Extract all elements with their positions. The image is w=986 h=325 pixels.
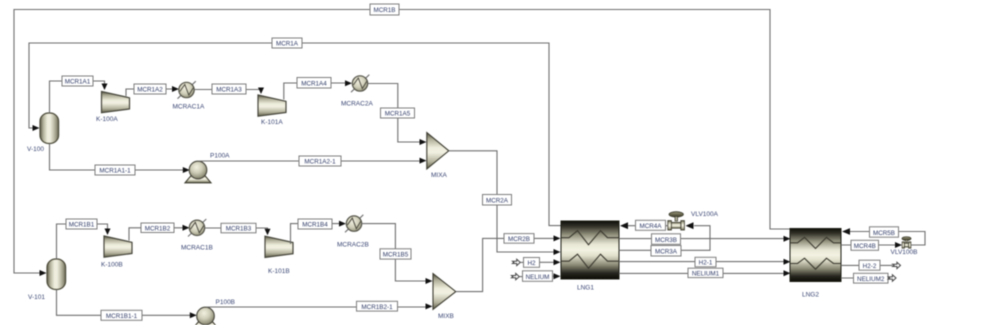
stream label MCR5B <box>870 227 899 237</box>
svg-text:K-101B: K-101B <box>268 268 290 275</box>
pump P100A <box>185 153 230 183</box>
svg-text:MCR1B1: MCR1B1 <box>69 222 95 229</box>
svg-text:H2-1: H2-1 <box>699 260 713 267</box>
svg-text:MCR3A: MCR3A <box>655 249 678 256</box>
wire MCR4A (VLV100A to LNG1) <box>620 222 668 229</box>
svg-text:MCR2A: MCR2A <box>486 198 509 205</box>
svg-text:MCR2B: MCR2B <box>508 236 530 243</box>
svg-text:VLV100A: VLV100A <box>691 211 719 218</box>
svg-text:H2-2: H2-2 <box>863 263 877 270</box>
svg-text:MCR1B4: MCR1B4 <box>302 222 328 229</box>
stream label MCR1A4 <box>297 78 331 89</box>
stream label MCR3B <box>652 234 681 245</box>
svg-text:P100B: P100B <box>216 299 236 306</box>
stream label MCR1A2 <box>134 84 166 94</box>
wire MCR1A1-1 (V-100 bottom to P100A) <box>50 144 190 174</box>
stream label MCR1B5 <box>380 249 411 259</box>
wire H2-1 (LNG1 to LNG2) <box>619 259 791 265</box>
svg-text:MCR1B5: MCR1B5 <box>383 252 409 259</box>
feed arrow NELIUM <box>512 273 523 279</box>
stream label MCR4A <box>636 220 666 230</box>
svg-text:K-100B: K-100B <box>101 262 123 269</box>
svg-text:MCR1B3: MCR1B3 <box>226 226 252 233</box>
svg-text:LNG2: LNG2 <box>802 292 819 299</box>
stream label MCR2B <box>504 234 534 244</box>
stream label MCR1B3 <box>221 223 256 233</box>
stream label NELIUM2 <box>854 273 889 283</box>
svg-text:P100A: P100A <box>210 153 230 160</box>
wire MCR1A2-1 (P100A to MIXA) <box>199 158 427 164</box>
svg-text:MCRAC2B: MCRAC2B <box>337 242 369 249</box>
wire H2 (feed to LNG1) <box>540 259 561 265</box>
stream label MCR3A <box>651 246 681 257</box>
svg-text:NELIUM1: NELIUM1 <box>692 271 720 278</box>
heat exchanger LNG1 <box>561 221 619 292</box>
valve VLV100B <box>891 237 918 256</box>
stream label H2-1 <box>695 257 716 267</box>
compressor K-101B <box>265 236 293 275</box>
wire MCR2B (MIXB to LNG1) <box>456 235 561 291</box>
wire MCR5B (VLV100B to LNG2) <box>842 228 925 245</box>
wire NELIUM1 (LNG1 to LNG2) <box>619 270 791 276</box>
wire MCR1A5 (MCRAC2A to MIXA) <box>368 84 427 146</box>
svg-text:MCR4B: MCR4B <box>854 243 876 250</box>
svg-text:K-100A: K-100A <box>96 116 118 123</box>
svg-text:VLV100B: VLV100B <box>891 249 918 256</box>
svg-text:MCR1A5: MCR1A5 <box>385 111 411 118</box>
cooler MCRAC1B <box>181 219 213 252</box>
wire MCR1A4 (K-101A to MCRAC2A) <box>284 80 352 99</box>
vessel V-101 <box>28 259 66 301</box>
svg-text:V-101: V-101 <box>28 294 45 301</box>
compressor K-100B <box>101 236 132 269</box>
wire MCR1B3 (MCRAC1B to K-101B) <box>205 228 271 235</box>
svg-text:K-101A: K-101A <box>261 119 283 126</box>
stream label MCR1A3 <box>212 84 246 94</box>
wire MCR1A3 (MCRAC1A to K-101A) <box>194 88 264 95</box>
svg-text:MCR1A: MCR1A <box>276 41 299 48</box>
cooler MCRAC1A <box>173 81 205 110</box>
wire MCR3A (LNG1 to VLV100A) <box>619 222 710 250</box>
vessel V-100 <box>27 113 59 153</box>
wire MCR1A (LNG1 outlet back to V-100) <box>29 43 561 226</box>
wire MCR1B2-1 (P100B to MIXB) <box>207 303 433 309</box>
svg-text:MCR1A2-1: MCR1A2-1 <box>304 159 336 166</box>
svg-text:LNG1: LNG1 <box>577 285 594 292</box>
wire MCR1A1 (V-100 top to K-100A) <box>50 81 108 113</box>
svg-text:MCR1A3: MCR1A3 <box>216 87 242 94</box>
stream label MCR1B1 <box>66 219 97 229</box>
wire MCR1B5 (MCRAC2B to MIXB) <box>362 224 433 284</box>
valve VLV100A <box>668 211 719 230</box>
svg-text:MCR3B: MCR3B <box>655 237 677 244</box>
compressor K-100A <box>96 92 130 124</box>
stream label MCR1A5 <box>381 108 415 118</box>
svg-text:MCR1B: MCR1B <box>373 7 395 14</box>
svg-text:MCR1B1-1: MCR1B1-1 <box>106 313 138 320</box>
svg-text:MCR1B2: MCR1B2 <box>145 225 171 232</box>
stream label MCR1A <box>272 38 302 48</box>
svg-text:MCR1A1-1: MCR1A1-1 <box>99 168 131 175</box>
wire MCR1B4 (K-101B to MCRAC2B) <box>291 221 347 244</box>
stream label MCR2A <box>483 195 512 206</box>
stream label MCR1A2-1 <box>299 156 341 166</box>
heat exchanger LNG2 <box>790 229 841 299</box>
svg-text:NELIUM2: NELIUM2 <box>857 276 885 283</box>
wire MCR3B (LNG1 to LNG2) <box>619 236 791 242</box>
svg-text:MCRAC1B: MCRAC1B <box>181 245 213 252</box>
svg-text:MCRAC1A: MCRAC1A <box>173 104 205 111</box>
svg-text:V-100: V-100 <box>27 146 44 153</box>
stream label NELIUM1 <box>688 268 723 277</box>
stream label MCR1B4 <box>298 219 332 229</box>
stream label NELIUM <box>523 271 553 282</box>
wire NELIUM2 (LNG2 to product) <box>841 277 888 279</box>
product arrow NELIUM2 <box>888 275 896 281</box>
wire H2-2 (LNG2 to product) <box>841 264 893 266</box>
wire MCR1B1-1 (V-101 bottom to P100B) <box>57 290 197 319</box>
svg-text:H2: H2 <box>527 260 536 267</box>
svg-text:MCR1A4: MCR1A4 <box>301 81 327 88</box>
cooler MCRAC2B <box>337 215 369 249</box>
svg-text:MCR1A2: MCR1A2 <box>137 87 163 94</box>
wire MCR4B (LNG2 to VLV100B) <box>841 242 902 248</box>
svg-text:MCR1A1: MCR1A1 <box>65 79 91 86</box>
wire MCR1B (LNG2 outlet back to V-101) <box>14 10 791 277</box>
mixer MIXB <box>433 274 456 320</box>
svg-text:MCR1B2-1: MCR1B2-1 <box>361 304 393 311</box>
product arrow H2-2 <box>893 262 901 268</box>
pump P100B <box>193 299 236 325</box>
wire NELIUM (feed to LNG1) <box>553 273 561 279</box>
stream label MCR1B1-1 <box>101 310 142 320</box>
svg-text:MCRAC2A: MCRAC2A <box>341 101 373 108</box>
wire MCR2A (MIXA to LNG1) <box>449 151 561 255</box>
stream label MCR1B2 <box>141 223 174 233</box>
wire MCR1B2 (K-100B to MCRAC1B) <box>129 225 190 241</box>
mixer MIXA <box>427 133 449 179</box>
stream label H2 <box>524 258 540 268</box>
wire MCR1A2 (K-100A to MCRAC1A) <box>126 86 179 96</box>
svg-text:MIXA: MIXA <box>431 172 448 179</box>
svg-text:NELIUM: NELIUM <box>526 274 550 281</box>
stream label H2-2 <box>859 260 880 270</box>
svg-text:MCR5B: MCR5B <box>873 230 895 237</box>
svg-text:MIXB: MIXB <box>438 313 454 320</box>
compressor K-101A <box>258 95 286 126</box>
stream label MCR1B2-1 <box>357 301 398 311</box>
feed arrow H2 <box>513 259 524 265</box>
stream label MCR1A1 <box>62 76 93 86</box>
stream label MCR1A1-1 <box>95 165 135 175</box>
cooler MCRAC2A <box>341 75 373 108</box>
stream label MCR4B <box>851 240 879 250</box>
stream label MCR1B <box>370 4 399 15</box>
wire MCR1B1 (V-101 top to K-100B) <box>57 224 111 259</box>
svg-text:MCR4A: MCR4A <box>639 223 662 230</box>
